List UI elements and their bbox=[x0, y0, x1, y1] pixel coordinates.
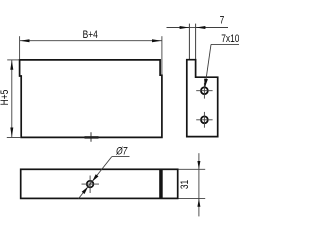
dimension H+5 extension line top bbox=[7, 59, 19, 61]
svg-text:B+4: B+4 bbox=[83, 29, 99, 41]
front view hole center tick horizontal bbox=[85, 136, 99, 139]
hole H3 center mark vertical bbox=[89, 176, 91, 194]
dimension 7 arrow right bbox=[196, 26, 206, 29]
side view plate edge left bbox=[188, 24, 190, 60]
dimension H+5 extension line bottom bbox=[7, 137, 21, 139]
hole H2 center mark vertical bbox=[203, 112, 205, 128]
hole H1 center mark vertical bbox=[203, 83, 205, 99]
dimension 7 line middle bbox=[189, 27, 195, 29]
dimension B+4 arrow right bbox=[152, 39, 162, 42]
svg-text:31: 31 bbox=[179, 180, 191, 189]
leader 7x10 shelf bbox=[211, 43, 239, 45]
leader 7x10 arrowhead bbox=[204, 79, 208, 88]
side view outline bbox=[187, 60, 218, 137]
front view hole center tick bbox=[90, 132, 92, 142]
dimension 7 line left tail bbox=[167, 27, 190, 29]
hole H3 bbox=[87, 181, 94, 188]
bottom view step line bbox=[159, 169, 163, 198]
dimension B+4 extension line left bbox=[19, 36, 21, 59]
leader diameter 7 arrow lower bbox=[82, 187, 88, 194]
dimension 7 line right tail bbox=[196, 27, 228, 29]
dimension 31 arrow top bbox=[197, 161, 200, 169]
svg-text:Ø7: Ø7 bbox=[115, 146, 128, 158]
svg-text:7: 7 bbox=[220, 15, 225, 27]
leader diameter 7 arrow upper bbox=[92, 174, 98, 181]
leader diameter 7 shelf bbox=[112, 155, 130, 157]
dimension 31 extension top bbox=[179, 168, 206, 170]
hole H2 bbox=[201, 116, 208, 123]
svg-text:7x10: 7x10 bbox=[221, 33, 239, 45]
dimension H+5 arrow up bbox=[10, 60, 13, 70]
hole H3 center mark horizontal bbox=[82, 183, 100, 185]
dimension 31 extension bottom bbox=[179, 197, 206, 199]
hole H2 center mark horizontal bbox=[196, 119, 212, 121]
dimension B+4 line bbox=[20, 40, 162, 42]
leader 7x10 diagonal bbox=[205, 44, 211, 86]
dimension 7 arrow left bbox=[180, 26, 190, 29]
hole H1 center mark horizontal bbox=[196, 90, 212, 92]
dimension B+4 arrow left bbox=[20, 39, 30, 42]
leader diameter 7 line bbox=[79, 157, 112, 199]
dimension 31 line bbox=[198, 153, 200, 216]
front view outline bbox=[20, 60, 162, 137]
hole H1 bbox=[201, 87, 208, 94]
bottom view outline bbox=[21, 169, 178, 198]
dimension 31 arrow bottom bbox=[197, 199, 200, 207]
side view plate edge right bbox=[195, 24, 197, 60]
dimension H+5 arrow down bbox=[10, 128, 13, 138]
svg-text:H+5: H+5 bbox=[0, 90, 11, 106]
dimension B+4 extension line right bbox=[161, 36, 163, 75]
dimension H+5 line bbox=[11, 60, 13, 137]
